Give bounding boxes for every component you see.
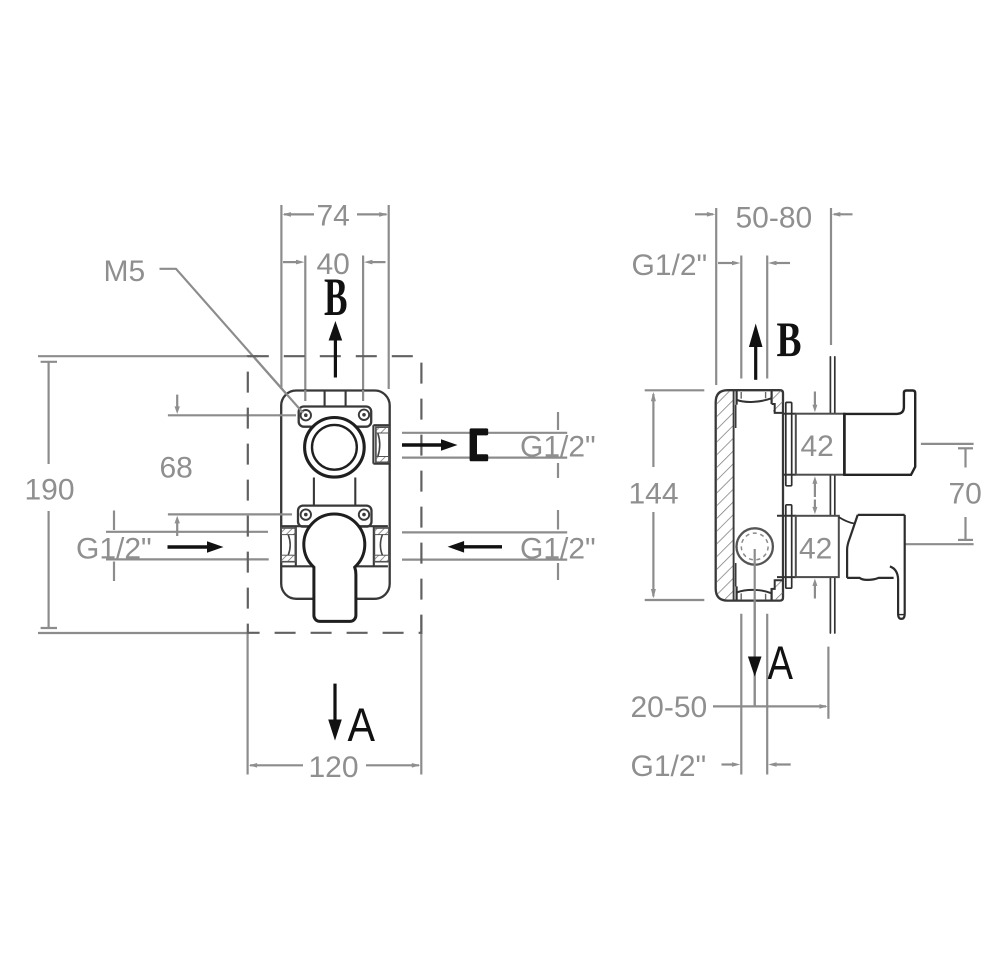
screw reference lines over body [279, 414, 296, 416]
overlay leader and reference lines over body [255, 358, 363, 514]
lower handle body fill [847, 515, 905, 619]
dimension 20-50 line [713, 705, 826, 707]
bottom valve block 42 [796, 516, 839, 577]
upper port side assembly horizontals [373, 424, 389, 426]
svg-text:B: B [777, 311, 802, 367]
svg-text:G1/2": G1/2" [632, 249, 708, 282]
dimension 74 extension lines [280, 205, 282, 389]
svg-text:50-80: 50-80 [736, 202, 813, 235]
flow arrow B side [754, 346, 757, 380]
escutcheon plate edge-on [829, 357, 831, 633]
svg-text:G1/2": G1/2" [520, 431, 596, 464]
concealed wall body plate [716, 390, 783, 600]
lower handle neck curve [839, 517, 854, 523]
right inlet pipe lower [402, 531, 567, 533]
keyhole cartridge outline [304, 514, 365, 621]
dashed installation box [248, 356, 422, 633]
G1/2 top dimension ticks [718, 262, 734, 264]
svg-text:M5: M5 [104, 255, 146, 288]
upper port side stub [376, 427, 389, 462]
hatched corner lower right [773, 578, 782, 600]
lower side plates [295, 526, 297, 566]
M5 leader line over body [255, 358, 303, 413]
lower handle hook curve [890, 566, 898, 579]
dimension 20-50 extension line [827, 647, 829, 719]
svg-text:42: 42 [801, 430, 834, 463]
bottom inlet bracket [735, 586, 737, 599]
hatched wall strip [717, 391, 734, 599]
lower pipe extension lines [740, 614, 742, 775]
svg-text:74: 74 [317, 200, 350, 233]
top outlet bracket [735, 391, 737, 405]
lower handle left edge [847, 515, 858, 578]
dimension 190 reference lines [38, 355, 258, 357]
flow arrow right pipe out [402, 443, 448, 446]
top right step [772, 404, 783, 413]
plug symbol [470, 428, 489, 461]
flow arrow A side head [748, 657, 762, 677]
flow arrow B front [334, 339, 337, 378]
top valve block 42 [796, 414, 845, 475]
knob circle [737, 528, 773, 564]
RIGHT VIEW GRAY DIMENSIONS [629, 202, 982, 784]
top flange [786, 402, 792, 485]
svg-text:144: 144 [629, 478, 679, 511]
lower handle finger chord [898, 614, 904, 616]
svg-text:G1/2": G1/2" [76, 533, 152, 566]
svg-text:A: A [768, 636, 794, 689]
upper port side plate [372, 425, 374, 464]
right outlet pipe upper [402, 432, 567, 434]
lower right stub [374, 528, 389, 562]
top handle [844, 391, 915, 475]
svg-text:G1/2": G1/2" [520, 533, 596, 566]
dimension 50-80 line [695, 213, 713, 215]
dimension 68 arrows [176, 395, 178, 408]
screw reference line lower [168, 513, 292, 515]
dimension 50-80 extension lines [715, 208, 717, 385]
40 extension lines over body [304, 390, 306, 401]
dimension 74 line [284, 213, 314, 215]
bottom right step [772, 580, 783, 589]
dimension 40 line [283, 261, 297, 263]
dimension 42 upper arrows [814, 392, 816, 407]
dimension 120 line [250, 764, 303, 766]
FRONT VIEW GRAY DIMENSIONS [25, 200, 596, 785]
left pipe end tick [113, 511, 115, 531]
lower screw right [359, 509, 369, 519]
top block connectors [783, 413, 796, 415]
left inlet pipe [106, 531, 268, 533]
bottom flange [786, 505, 792, 588]
top mounting bar [299, 407, 372, 427]
svg-text:B: B [324, 267, 348, 327]
svg-text:68: 68 [160, 452, 193, 485]
dimension 190 line with end ticks [47, 362, 49, 464]
lower side assembly horizontals [281, 525, 388, 527]
dimension 144 extension lines [645, 389, 705, 391]
lower handle right edge and finger [898, 515, 905, 619]
upper screw left M5 [301, 410, 311, 420]
valve body rounded housing [281, 391, 390, 599]
screw reference line upper [168, 414, 296, 416]
flow arrow A front [333, 684, 336, 722]
top port inner ring [312, 425, 357, 470]
top mounting neck [324, 391, 326, 407]
bottom block connectors [777, 515, 796, 517]
svg-text:G1/2": G1/2" [631, 750, 707, 783]
G1/2 bottom dimension ticks [722, 763, 737, 765]
flow arrow right pipe in [464, 545, 502, 548]
svg-text:190: 190 [25, 474, 75, 507]
svg-text:70: 70 [949, 478, 982, 511]
dimension 120 extension lines [247, 634, 249, 775]
black arrows and letters [168, 267, 802, 751]
top pipe extension lines [740, 256, 742, 379]
lower handle top edge [858, 514, 905, 516]
lower mounting bar [298, 506, 372, 527]
central column [313, 478, 315, 513]
top port outer ring [305, 418, 365, 478]
M5 leader line [160, 269, 304, 413]
dimension 144 line [652, 394, 654, 467]
dimension 40 extension lines [304, 256, 306, 402]
lower screw left [301, 509, 311, 519]
hatch strip inner edge [733, 391, 735, 600]
svg-text:42: 42 [799, 533, 832, 566]
lower right pipe tick [557, 510, 559, 530]
valve centerline lower [754, 548, 756, 707]
lower handle bottom edge with wave [847, 578, 894, 580]
top handle stem edge [843, 414, 846, 475]
svg-text:120: 120 [309, 751, 359, 784]
right view body [716, 357, 916, 707]
knob circle dashed inner [741, 533, 768, 560]
dimension 70 line with ticks [964, 448, 966, 467]
lower left stub [281, 528, 295, 562]
dimension 42 lower arrows [814, 500, 816, 510]
upper screw right [359, 410, 369, 420]
centerline through knob [754, 549, 756, 707]
svg-text:A: A [348, 698, 376, 751]
front valve body [281, 391, 390, 622]
dimension 70 reference lines [921, 443, 974, 445]
flow arrow left pipe in [168, 545, 208, 548]
hatched corner upper right [773, 391, 782, 413]
upper right pipe tick [557, 412, 559, 430]
svg-text:20-50: 20-50 [631, 691, 708, 724]
